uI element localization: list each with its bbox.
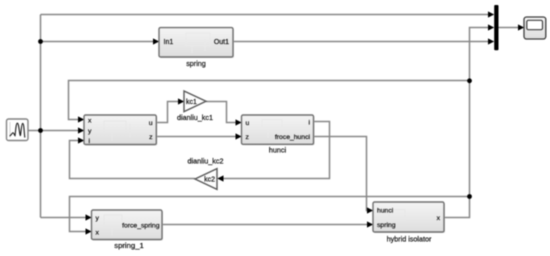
svg-text:u: u: [246, 120, 250, 127]
svg-text:z: z: [246, 134, 250, 141]
svg-text:x: x: [96, 229, 100, 236]
svg-text:froce_hunci: froce_hunci: [275, 134, 311, 141]
svg-text:kc1: kc1: [186, 99, 197, 106]
svg-text:y: y: [88, 128, 92, 135]
svg-text:force_spring: force_spring: [122, 222, 160, 229]
svg-text:spring: spring: [186, 59, 206, 68]
svg-text:x: x: [437, 215, 441, 222]
svg-text:u: u: [149, 120, 153, 127]
svg-text:dianliu_kc1: dianliu_kc1: [177, 113, 213, 122]
svg-text:kc2: kc2: [204, 177, 215, 184]
svg-text:x: x: [88, 117, 92, 124]
svg-text:z: z: [149, 134, 153, 141]
svg-text:spring_1: spring_1: [114, 241, 144, 250]
svg-text:hunci: hunci: [377, 208, 394, 215]
svg-text:In1: In1: [164, 39, 174, 46]
svg-text:Out1: Out1: [214, 39, 229, 46]
svg-text:y: y: [96, 215, 100, 222]
svg-text:hybrid isolator: hybrid isolator: [387, 234, 432, 243]
svg-text:hunci: hunci: [269, 145, 287, 154]
svg-text:spring: spring: [377, 222, 396, 229]
svg-text:dianliu_kc2: dianliu_kc2: [188, 156, 224, 165]
